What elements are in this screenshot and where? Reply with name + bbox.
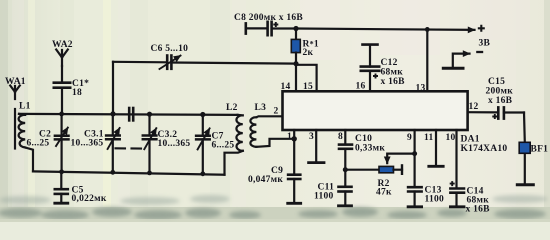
capacitor C13 xyxy=(408,187,422,207)
wire L3 bottom to pin 1 xyxy=(256,139,294,147)
antenna WA1 xyxy=(10,86,20,100)
svg-text:6...25: 6...25 xyxy=(212,141,235,151)
capacitor C8 xyxy=(246,22,296,35)
junction C3.2 bottom bus xyxy=(147,171,152,176)
junction C3.1 bottom bus xyxy=(110,170,115,175)
junction C2 bottom bus xyxy=(59,169,64,174)
junction C7 bottom bus xyxy=(200,171,205,176)
svg-text:1100: 1100 xyxy=(314,192,333,202)
wire L2 bottom to bus xyxy=(225,151,243,175)
wire C15 to BF1 xyxy=(523,113,526,185)
junction C8/R*1/+3V rail xyxy=(293,26,298,31)
junction node C7 top xyxy=(200,112,205,117)
svg-text:10: 10 xyxy=(446,133,456,143)
capacitor C2 variable xyxy=(55,114,69,172)
svg-text:WA1: WA1 xyxy=(5,77,26,87)
svg-text:12: 12 xyxy=(469,102,479,112)
wire L3 top to pin 2 xyxy=(256,115,282,118)
pin 11 stub with common bar xyxy=(429,130,443,166)
svg-text:0,022мк: 0,022мк xyxy=(72,194,107,204)
resistor R*1 xyxy=(291,29,300,64)
junction pin13/+3V rail xyxy=(425,27,430,32)
inductor L2 xyxy=(236,115,242,151)
inductor L1 xyxy=(19,114,26,148)
wire +3V rail xyxy=(296,29,475,30)
BF1 sound emitter xyxy=(519,142,530,153)
svg-text:11: 11 xyxy=(424,133,433,143)
capacitor C15 xyxy=(498,107,524,118)
pin 8 line xyxy=(344,130,346,144)
junction pin1/L3/C9 xyxy=(292,136,297,141)
pin 9 line xyxy=(414,130,416,187)
svg-text:10...365: 10...365 xyxy=(158,139,191,149)
svg-text:C6 5...10: C6 5...10 xyxy=(151,44,189,54)
potentiometer R2 xyxy=(345,154,414,174)
svg-text:C10: C10 xyxy=(355,134,372,144)
svg-text:14: 14 xyxy=(281,82,291,92)
wire pin14-15 node xyxy=(295,64,297,91)
bottom scan band xyxy=(0,195,550,222)
wire pin13 xyxy=(426,29,428,91)
svg-text:2к: 2к xyxy=(303,48,314,58)
junction C10/C11/R2 xyxy=(343,167,348,172)
wire L1 bottom to bus xyxy=(25,148,33,172)
svg-text:L1: L1 xyxy=(19,102,31,112)
coupling capacitor between tanks xyxy=(129,108,133,120)
wire C3.1 node up to C6 wire xyxy=(112,62,114,114)
capacitor C11 xyxy=(339,187,352,206)
svg-text:C8 200мк x 16В: C8 200мк x 16В xyxy=(234,13,303,23)
pin 12 wire xyxy=(468,111,497,113)
svg-text:x 16В: x 16В xyxy=(488,96,513,106)
capacitor C6 trimmer xyxy=(113,56,296,70)
wire tank top bus xyxy=(19,114,238,115)
svg-text:0,33мк: 0,33мк xyxy=(355,144,385,154)
svg-text:3: 3 xyxy=(309,132,314,142)
minus output branch xyxy=(443,54,469,69)
svg-text:WA2: WA2 xyxy=(52,40,73,50)
svg-text:2: 2 xyxy=(274,107,279,117)
plus and minus marks xyxy=(273,22,497,186)
svg-text:1100: 1100 xyxy=(425,195,444,205)
junction node C3.1 top xyxy=(110,111,115,116)
svg-text:C12: C12 xyxy=(381,58,398,68)
capacitor C3.2 variable xyxy=(143,114,157,173)
antenna WA2 xyxy=(56,50,68,67)
capacitor C14 xyxy=(450,189,464,207)
gang dashed link C3.1-C3.2 xyxy=(116,147,147,149)
capacitor C7 variable xyxy=(196,115,210,174)
capacitor C5 xyxy=(55,172,68,203)
wire to pin 15 xyxy=(296,65,317,91)
svg-text:BF1: BF1 xyxy=(531,145,549,155)
svg-text:200мк: 200мк xyxy=(486,87,514,97)
svg-text:C15: C15 xyxy=(488,77,505,87)
svg-text:16: 16 xyxy=(356,82,366,92)
svg-text:x 16В: x 16В xyxy=(381,77,406,87)
capacitor C12 xyxy=(361,45,379,91)
pin 3 stub with common bar xyxy=(309,130,324,163)
IC DA1 body xyxy=(283,91,468,130)
svg-text:8: 8 xyxy=(338,132,343,142)
svg-text:DA1: DA1 xyxy=(461,135,480,145)
junction R*1/C6/pins 14-15 xyxy=(293,61,298,66)
svg-text:x 16В: x 16В xyxy=(466,205,491,215)
svg-text:68мк: 68мк xyxy=(381,68,404,78)
svg-text:L2: L2 xyxy=(226,103,238,113)
svg-text:L3: L3 xyxy=(255,103,267,113)
svg-text:K174XA10: K174XA10 xyxy=(461,144,508,154)
junction node C1*/C2 top xyxy=(59,112,64,117)
capacitor C3.1 variable xyxy=(106,114,120,172)
svg-text:1: 1 xyxy=(287,132,292,142)
BF1 bottom bar xyxy=(517,183,533,186)
capacitor C1* xyxy=(54,66,70,114)
wire bottom bus xyxy=(33,171,225,174)
junction node C3.2 top xyxy=(147,112,152,117)
svg-text:15: 15 xyxy=(303,82,313,92)
pin 10 line xyxy=(455,130,457,188)
junction pin9/R2 wiper xyxy=(412,151,417,156)
capacitor C9 xyxy=(288,175,301,204)
svg-text:6...25: 6...25 xyxy=(27,139,50,149)
svg-text:18: 18 xyxy=(72,88,82,98)
pin 1 line xyxy=(293,130,295,175)
svg-text:9: 9 xyxy=(407,133,412,143)
svg-text:10...365: 10...365 xyxy=(71,139,104,149)
ferrite rod of L1 xyxy=(14,109,16,149)
svg-text:3В: 3В xyxy=(479,39,491,49)
svg-text:13: 13 xyxy=(416,84,426,94)
arrowheads xyxy=(0,0,1,1)
inductor L3 xyxy=(250,117,256,147)
capacitor C10 xyxy=(339,145,352,187)
svg-text:0,047мк: 0,047мк xyxy=(248,175,283,185)
svg-text:47к: 47к xyxy=(376,188,392,198)
